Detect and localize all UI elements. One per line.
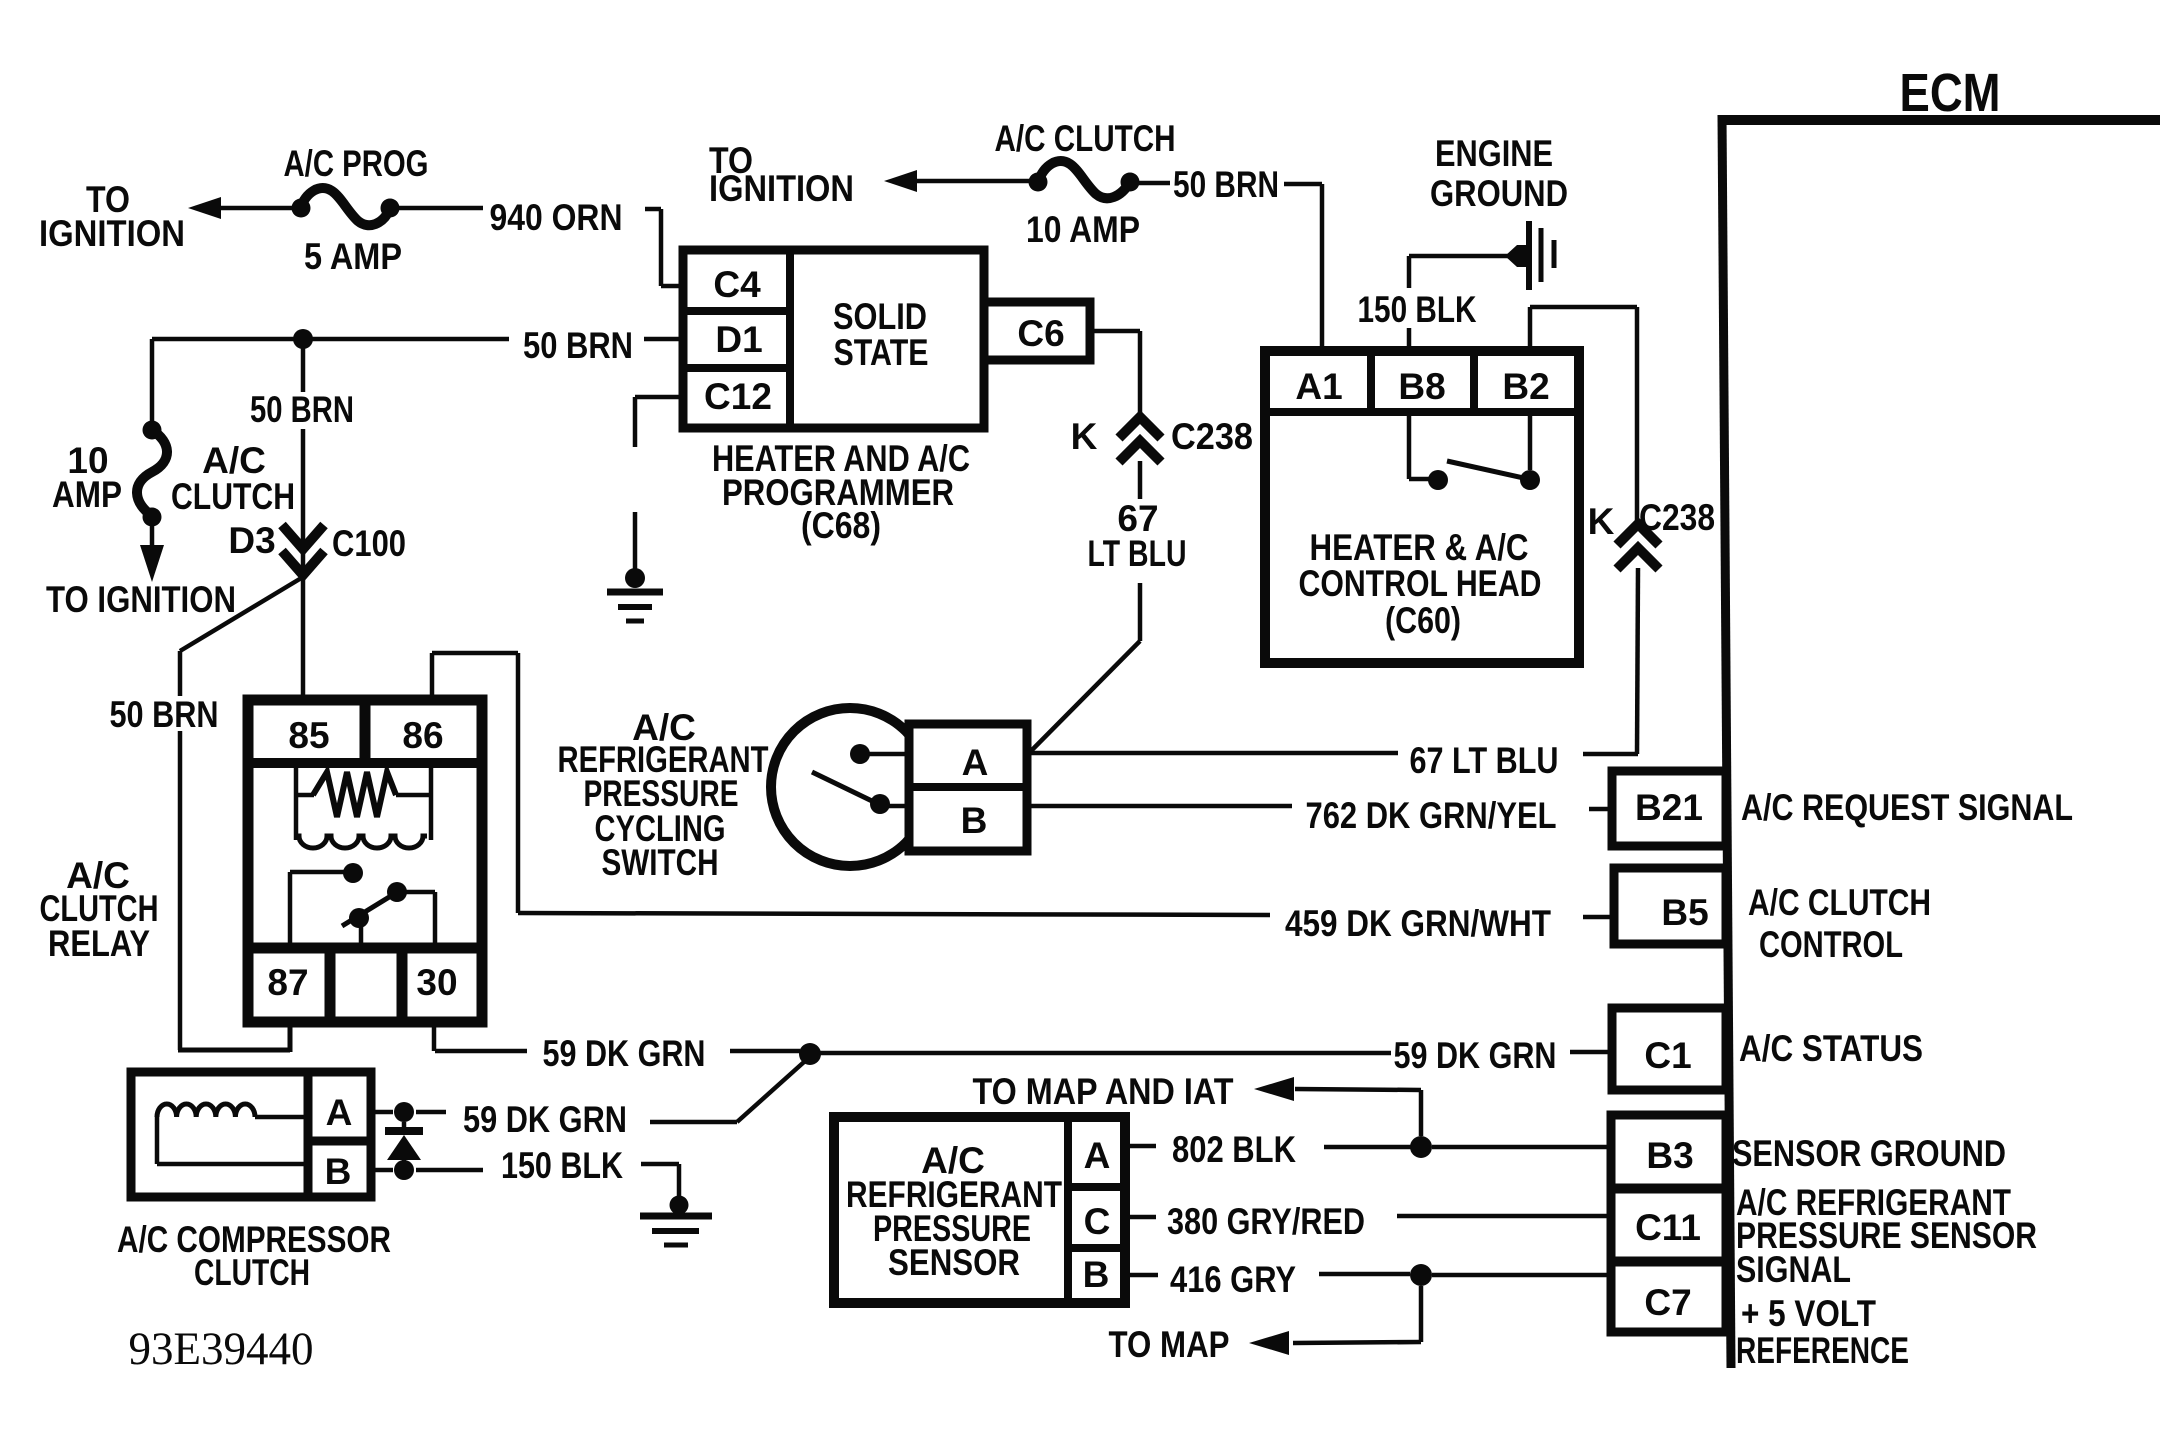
- svg-text:TO IGNITION: TO IGNITION: [46, 579, 236, 620]
- svg-text:C4: C4: [713, 264, 761, 305]
- svg-text:SIGNAL: SIGNAL: [1736, 1249, 1851, 1290]
- svg-text:CLUTCH: CLUTCH: [194, 1252, 310, 1293]
- svg-text:TO MAP AND IAT: TO MAP AND IAT: [973, 1071, 1234, 1112]
- svg-text:ENGINE: ENGINE: [1435, 133, 1553, 174]
- svg-text:B: B: [961, 800, 988, 841]
- svg-text:SENSOR: SENSOR: [888, 1242, 1020, 1283]
- svg-text:93E39440: 93E39440: [129, 1323, 314, 1375]
- svg-text:+ 5 VOLT: + 5 VOLT: [1741, 1293, 1876, 1334]
- svg-text:C11: C11: [1635, 1207, 1701, 1248]
- svg-text:C1: C1: [1644, 1035, 1691, 1076]
- svg-text:IGNITION: IGNITION: [39, 213, 185, 254]
- svg-text:380 GRY/RED: 380 GRY/RED: [1167, 1201, 1365, 1242]
- svg-text:CONTROL HEAD: CONTROL HEAD: [1299, 563, 1542, 604]
- svg-text:50 BRN: 50 BRN: [1173, 164, 1279, 205]
- svg-text:A/C PROG: A/C PROG: [284, 143, 429, 184]
- svg-text:59 DK GRN: 59 DK GRN: [463, 1099, 627, 1140]
- svg-text:LT BLU: LT BLU: [1088, 533, 1187, 574]
- svg-text:D1: D1: [715, 319, 762, 360]
- svg-text:A/C STATUS: A/C STATUS: [1739, 1028, 1923, 1069]
- svg-text:CONTROL: CONTROL: [1759, 924, 1903, 965]
- svg-text:150 BLK: 150 BLK: [1358, 289, 1477, 330]
- svg-text:K: K: [1588, 501, 1615, 542]
- svg-text:86: 86: [402, 715, 443, 756]
- svg-text:A/C: A/C: [202, 440, 266, 481]
- svg-text:D3: D3: [228, 520, 275, 561]
- svg-text:59 DK GRN: 59 DK GRN: [1394, 1035, 1557, 1076]
- svg-text:REFERENCE: REFERENCE: [1736, 1330, 1909, 1371]
- svg-text:C12: C12: [704, 376, 772, 417]
- svg-text:HEATER & A/C: HEATER & A/C: [1310, 527, 1529, 568]
- svg-text:802 BLK: 802 BLK: [1172, 1129, 1296, 1170]
- svg-text:87: 87: [267, 962, 308, 1003]
- svg-text:5 AMP: 5 AMP: [304, 236, 402, 277]
- svg-text:C238: C238: [1639, 497, 1715, 538]
- svg-text:A1: A1: [1295, 366, 1342, 407]
- svg-text:GROUND: GROUND: [1430, 173, 1568, 214]
- svg-text:59 DK GRN: 59 DK GRN: [543, 1033, 706, 1074]
- svg-text:RELAY: RELAY: [48, 923, 150, 964]
- svg-text:C: C: [1084, 1201, 1111, 1242]
- svg-text:A/C CLUTCH: A/C CLUTCH: [995, 118, 1176, 159]
- svg-text:IGNITION: IGNITION: [709, 168, 854, 209]
- svg-text:B: B: [325, 1151, 352, 1192]
- svg-text:459 DK GRN/WHT: 459 DK GRN/WHT: [1285, 903, 1551, 944]
- svg-text:B2: B2: [1502, 366, 1549, 407]
- svg-text:(C60): (C60): [1385, 600, 1461, 641]
- svg-text:B3: B3: [1646, 1135, 1693, 1176]
- svg-text:AMP: AMP: [52, 474, 122, 515]
- svg-text:A/C REQUEST SIGNAL: A/C REQUEST SIGNAL: [1741, 787, 2073, 828]
- svg-text:C6: C6: [1017, 313, 1064, 354]
- svg-text:C238: C238: [1171, 416, 1253, 457]
- svg-text:50 BRN: 50 BRN: [250, 389, 354, 430]
- svg-text:50 BRN: 50 BRN: [523, 325, 633, 366]
- svg-text:85: 85: [288, 715, 329, 756]
- svg-text:150 BLK: 150 BLK: [501, 1145, 623, 1186]
- svg-text:SENSOR GROUND: SENSOR GROUND: [1732, 1133, 2006, 1174]
- svg-text:10 AMP: 10 AMP: [1026, 209, 1140, 250]
- svg-text:STATE: STATE: [834, 332, 929, 373]
- svg-text:SOLID: SOLID: [833, 296, 927, 337]
- svg-text:B: B: [1083, 1254, 1110, 1295]
- svg-text:30: 30: [416, 962, 457, 1003]
- svg-text:K: K: [1071, 416, 1098, 457]
- svg-text:C7: C7: [1644, 1282, 1691, 1323]
- svg-text:B21: B21: [1635, 787, 1703, 828]
- svg-text:B5: B5: [1661, 892, 1708, 933]
- svg-text:(C68): (C68): [801, 505, 881, 546]
- svg-text:ECM: ECM: [1900, 63, 2001, 123]
- svg-text:TO MAP: TO MAP: [1109, 1324, 1230, 1365]
- svg-text:416 GRY: 416 GRY: [1170, 1259, 1296, 1300]
- svg-text:A: A: [962, 742, 989, 783]
- svg-text:50 BRN: 50 BRN: [110, 694, 219, 735]
- svg-text:762 DK GRN/YEL: 762 DK GRN/YEL: [1306, 795, 1557, 836]
- svg-text:67 LT BLU: 67 LT BLU: [1410, 740, 1559, 781]
- svg-text:A/C CLUTCH: A/C CLUTCH: [1748, 882, 1931, 923]
- svg-text:940 ORN: 940 ORN: [490, 197, 623, 238]
- svg-text:C100: C100: [332, 523, 406, 564]
- svg-text:A: A: [326, 1092, 353, 1133]
- svg-text:B8: B8: [1398, 366, 1445, 407]
- svg-text:SWITCH: SWITCH: [602, 842, 719, 883]
- svg-text:CLUTCH: CLUTCH: [171, 476, 295, 517]
- svg-text:A: A: [1084, 1135, 1111, 1176]
